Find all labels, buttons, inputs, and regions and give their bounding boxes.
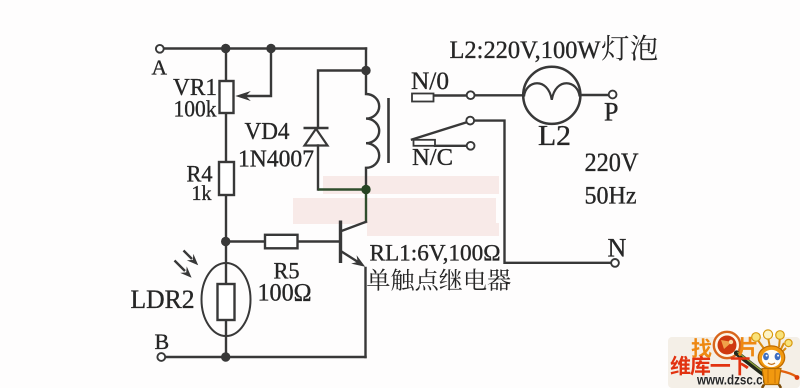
relay coil windings (366, 71, 379, 190)
wire bottom rail B to emitter (166, 356, 366, 358)
wire top rail A to coil branch (164, 47, 366, 49)
watermark text weiku yixia (670, 356, 690, 376)
junction dot bottom rail / LDR (221, 352, 230, 361)
N/C end circle (467, 142, 475, 150)
svg-text:1k: 1k (192, 181, 212, 205)
svg-text:100Ω: 100Ω (258, 280, 312, 307)
watermark pink band 1 (323, 176, 499, 194)
wire VR1 to R4 (225, 112, 227, 162)
VR1 wiper wire (246, 49, 271, 97)
resistor R5 body (265, 235, 298, 249)
relay core bar (387, 98, 390, 163)
relay N/C fixed contact (414, 140, 436, 146)
junction dot top-rail / VR1 (221, 44, 230, 53)
lamp L2 circle (523, 67, 580, 124)
terminal A circle (156, 45, 164, 53)
resistor R4 body (219, 162, 234, 195)
wire N/O contact to its terminal circle (434, 94, 467, 96)
LDR2 envelope (202, 263, 251, 336)
watermark magnifier circle (714, 332, 740, 358)
lamp L2 filament arcs (524, 83, 580, 100)
transistor emitter diagonal (342, 252, 359, 263)
svg-text:100k: 100k (174, 97, 217, 122)
watermark text zhao (find) (692, 338, 712, 358)
wire node into LDR (225, 242, 227, 285)
junction dot top-rail / wiper (266, 44, 275, 53)
wire collector leg (green tinted) (365, 190, 367, 222)
wire drop to coil loop top (365, 49, 367, 71)
diode VD4 cathode bar (304, 127, 329, 130)
transistor base bar (339, 221, 342, 264)
label lamp type CJK (dengpao) (602, 35, 628, 61)
watermark pink band 3 (367, 223, 499, 236)
svg-text:VD4: VD4 (245, 119, 290, 145)
wire VR1 chain from top rail (225, 49, 227, 81)
wire LDR to bottom rail (225, 320, 227, 357)
wire armature pivot to down leg (474, 121, 611, 263)
wire R5 to transistor base (298, 240, 340, 242)
watermark text pian (chip) (738, 337, 756, 357)
svg-text:B: B (155, 329, 170, 354)
diode VD4 triangle (305, 129, 328, 146)
svg-text:L2:220V,100W: L2:220V,100W (450, 37, 601, 64)
relay N/O fixed contact (412, 94, 434, 102)
svg-text:A: A (152, 56, 168, 80)
svg-text:L2: L2 (538, 121, 571, 152)
wire lamp to P terminal (580, 94, 608, 96)
armature pivot circle (466, 117, 474, 125)
VR1 wiper arrowhead (235, 91, 251, 101)
terminal N circle (611, 259, 619, 267)
label relay type CJK (single-contact relay) (367, 269, 390, 291)
svg-text:1N4007: 1N4007 (238, 147, 314, 173)
junction dot coil bottom (green) (361, 185, 370, 194)
junction dot R4/R5/LDR node (221, 237, 230, 246)
wire node to R5 (226, 240, 265, 242)
svg-text:220V: 220V (585, 148, 639, 177)
watermark beige band (668, 337, 800, 388)
transistor emitter arrowhead (351, 255, 368, 271)
svg-text:50Hz: 50Hz (585, 183, 637, 210)
svg-text:RL1:6V,100Ω: RL1:6V,100Ω (370, 241, 501, 266)
LDR2 element body (218, 284, 235, 320)
svg-text:N/0: N/0 (411, 68, 449, 95)
svg-text:P: P (604, 98, 618, 127)
LDR light arrow 2 (175, 261, 186, 272)
wire N/C contact to end circle (435, 145, 467, 147)
wire coil loop top-left (318, 71, 366, 129)
svg-text:N/C: N/C (412, 145, 453, 171)
junction dot coil top (361, 66, 370, 75)
watermark magnifier handle (737, 353, 764, 374)
N/O terminal circle (467, 91, 475, 99)
svg-text:LDR2: LDR2 (131, 285, 195, 314)
terminal P circle (609, 91, 617, 99)
wire diode to bottom-left corner (317, 146, 319, 190)
svg-text:N: N (608, 234, 627, 263)
terminal B circle (157, 353, 165, 361)
relay armature (412, 122, 467, 139)
transistor collector diagonal (342, 222, 367, 231)
watermark pink band 2 (293, 198, 496, 224)
wire coil loop bottom (green tinted) (318, 188, 366, 190)
wire N/O terminal to lamp (475, 94, 524, 96)
potentiometer VR1 body (220, 81, 234, 113)
watermark mascot (752, 330, 800, 388)
wire emitter down leg (364, 268, 366, 357)
wire R4 to node (225, 195, 227, 242)
LDR light arrow 1 (184, 251, 193, 260)
